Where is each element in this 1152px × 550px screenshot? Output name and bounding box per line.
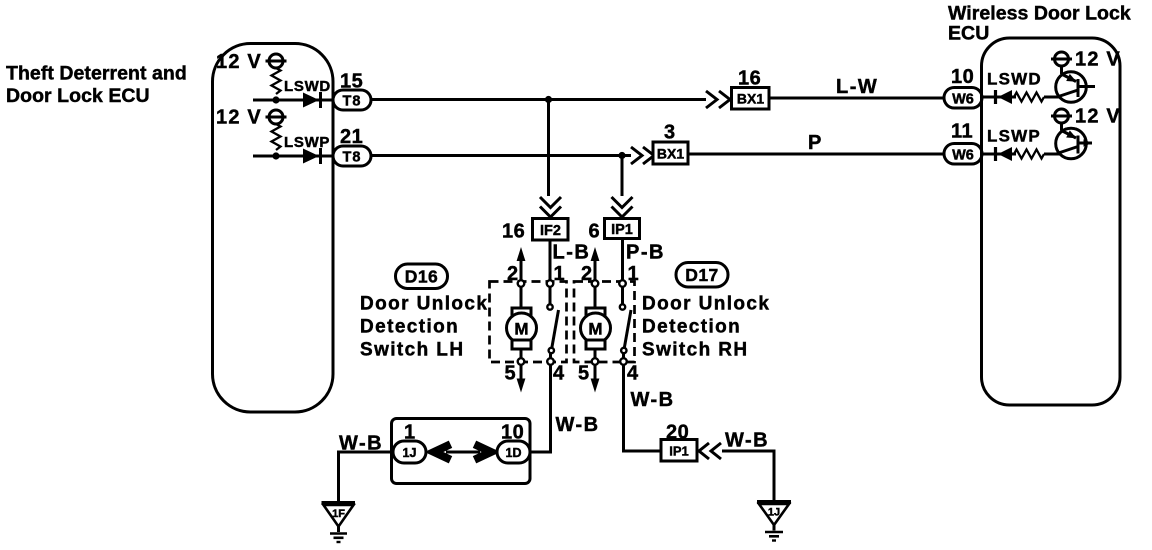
- diode LSWP (wireless ECU): [996, 147, 1013, 161]
- svg-text:12 V: 12 V: [216, 107, 262, 129]
- label: Wireless Door Lock ECU: [948, 3, 1131, 45]
- switch (D16): [547, 286, 558, 359]
- wire (IF2 to D16 pin 1): [549, 240, 552, 281]
- svg-text:ECU: ECU: [948, 23, 989, 45]
- svg-text:L-B: L-B: [553, 242, 591, 264]
- connector arrows out of IP1 (bottom): [699, 443, 721, 459]
- power source symbol 12V (LSWP): [266, 110, 287, 124]
- svg-text:4: 4: [627, 363, 639, 385]
- wire (L-W drop to IF2): [547, 100, 550, 197]
- diode (LSWP row): [303, 148, 321, 164]
- connector arrows into IP1: [612, 197, 633, 217]
- svg-text:11: 11: [951, 121, 973, 143]
- transistor Q1: [1056, 66, 1095, 102]
- resistor LSWD: [272, 68, 281, 94]
- svg-text:BX1: BX1: [737, 91, 764, 107]
- svg-text:5: 5: [505, 363, 517, 385]
- wire W-B (D17 pin 4 down to IP1): [624, 365, 662, 451]
- svg-text:1D: 1D: [506, 446, 522, 460]
- wire P (T8 pin21 to BX1): [371, 154, 631, 157]
- connector BX1 (P): [653, 142, 688, 164]
- connector T8 pin 21: [333, 146, 371, 166]
- D17 connector code label: [676, 263, 728, 288]
- svg-text:1F: 1F: [332, 508, 345, 520]
- dashed box: Door Unlock Detection Switch RH (D17): [574, 282, 635, 363]
- svg-text:1: 1: [554, 263, 566, 285]
- wire arrow up (D17 pin 2): [591, 247, 600, 280]
- svg-text:P: P: [808, 132, 823, 154]
- svg-text:IF2: IF2: [540, 223, 561, 239]
- Wireless Door Lock ECU box outline: [982, 38, 1121, 405]
- svg-text:1J: 1J: [403, 446, 417, 460]
- wire P (BX1 to W6): [688, 153, 944, 156]
- wire W-B (1J to ground IF): [339, 452, 394, 502]
- svg-text:12 V: 12 V: [216, 51, 262, 73]
- wire W-B (IP1 to ground 1J): [722, 451, 774, 500]
- wire (resistor to transistor Q2 base): [1044, 153, 1059, 156]
- svg-text:IP1: IP1: [669, 444, 689, 459]
- wire (P drop to IP1): [621, 156, 624, 197]
- junction node (LSWP row): [272, 152, 279, 159]
- connector IF2: [533, 219, 569, 241]
- label: Theft Deterrent and Door Lock ECU: [6, 63, 187, 108]
- svg-text:W-B: W-B: [556, 414, 600, 436]
- svg-text:LSWP: LSWP: [284, 134, 330, 151]
- svg-text:Door Lock ECU: Door Lock ECU: [6, 85, 150, 107]
- svg-text:M: M: [588, 320, 602, 339]
- svg-text:D17: D17: [685, 265, 719, 285]
- connector arrows into BX1 (L-W): [706, 91, 730, 108]
- resistor LSWP: [272, 124, 281, 150]
- svg-text:LSWP: LSWP: [987, 127, 1041, 146]
- connector IP1: [605, 219, 640, 239]
- connector T8 pin 15: [333, 90, 371, 110]
- resistor (LSWD row, wireless ECU): [1014, 93, 1044, 102]
- svg-text:12 V: 12 V: [1075, 106, 1121, 128]
- svg-text:Door Unlock: Door Unlock: [360, 294, 488, 315]
- svg-text:LSWD: LSWD: [987, 70, 1042, 89]
- junction node (P drop to IP1): [618, 152, 625, 159]
- wire (LSWD row inside ECU): [253, 99, 333, 102]
- resistor (LSWP row, wireless ECU): [1014, 150, 1044, 159]
- svg-text:12 V: 12 V: [1075, 49, 1121, 71]
- svg-text:T8: T8: [343, 149, 362, 165]
- svg-text:IP1: IP1: [611, 222, 633, 238]
- power source symbol 12V (Q2): [1051, 109, 1072, 123]
- transistor Q2: [1056, 123, 1092, 159]
- svg-text:L-W: L-W: [836, 76, 878, 98]
- dashed box: Door Unlock Detection Switch LH (D16): [490, 282, 567, 363]
- svg-text:T8: T8: [343, 93, 362, 109]
- wire L-W (BX1 to W6): [769, 97, 944, 100]
- motor M (D17): [581, 286, 611, 359]
- wire W-B (D16 pin 4 down to junction connector 1D): [531, 365, 551, 452]
- svg-text:W-B: W-B: [631, 389, 675, 411]
- wire (LSWP row inside ECU): [253, 155, 333, 158]
- svg-text:Detection: Detection: [360, 317, 459, 338]
- svg-text:D16: D16: [405, 267, 439, 287]
- pin 2 node (D17): [592, 280, 599, 287]
- svg-text:Wireless Door Lock: Wireless Door Lock: [948, 3, 1131, 25]
- svg-text:3: 3: [664, 122, 676, 144]
- svg-text:M: M: [514, 320, 528, 339]
- Theft Deterrent and Door Lock ECU box outline: [213, 44, 334, 413]
- svg-text:W-B: W-B: [725, 430, 769, 452]
- wire arrow up (D16 pin 2): [517, 247, 526, 280]
- svg-text:10: 10: [951, 66, 974, 88]
- svg-text:Theft Deterrent and: Theft Deterrent and: [6, 63, 187, 85]
- connector arrows into BX1 (P): [631, 147, 654, 164]
- svg-text:5: 5: [578, 363, 590, 385]
- svg-text:1: 1: [628, 263, 640, 285]
- wire (between junction arrows): [446, 451, 480, 454]
- pin 1 node (D16): [547, 280, 554, 287]
- pin 1 node (D17): [619, 280, 626, 287]
- wire (IP1 to D17 pin 1): [621, 239, 624, 282]
- svg-text:LSWD: LSWD: [284, 78, 331, 95]
- svg-text:P-B: P-B: [626, 242, 665, 264]
- svg-text:W6: W6: [952, 147, 974, 163]
- svg-text:1J: 1J: [768, 507, 780, 519]
- power source symbol 12V (LSWD): [266, 54, 287, 68]
- wire (W6-10 into wireless ECU): [982, 96, 1016, 99]
- connector W6 pin 11: [944, 144, 982, 165]
- junction node (LSWD row): [272, 96, 279, 103]
- svg-text:Switch RH: Switch RH: [642, 340, 749, 361]
- junction arrow left (inside junction block): [434, 444, 451, 459]
- svg-text:Door Unlock: Door Unlock: [642, 294, 770, 315]
- ground IF: [322, 501, 356, 542]
- svg-text:W6: W6: [952, 91, 974, 107]
- svg-text:Switch LH: Switch LH: [360, 340, 464, 361]
- junction node (L-W drop to IF2): [545, 96, 552, 103]
- connector arrows into IF2: [540, 197, 561, 217]
- label: Door Unlock Detection Switch LH: [360, 294, 488, 361]
- svg-text:Detection: Detection: [642, 317, 741, 338]
- label: Door Unlock Detection Switch RH: [642, 294, 770, 361]
- wire (resistor to transistor Q1 base): [1044, 96, 1059, 99]
- connector 1J: [393, 441, 426, 463]
- pin 2 node (D16): [518, 280, 525, 287]
- connector IP1 (bottom): [661, 440, 697, 462]
- motor M (D16): [507, 286, 537, 359]
- svg-text:16: 16: [502, 221, 525, 243]
- D16 connector code label: [396, 264, 448, 289]
- wire arrow down (D16 pin 5): [517, 365, 526, 393]
- svg-text:W-B: W-B: [339, 433, 383, 455]
- wire L-W (T8 pin15 to BX1): [371, 98, 706, 101]
- wire (W6-11 into wireless ECU): [982, 153, 1016, 156]
- switch (D17): [620, 286, 631, 359]
- pin 4 node (D17): [620, 358, 627, 365]
- diode LSWD (wireless ECU): [996, 90, 1013, 104]
- pin 4 node (D16): [547, 358, 554, 365]
- connector W6 pin 10: [944, 88, 982, 109]
- connector BX1 (L-W): [732, 88, 770, 110]
- power source symbol 12V (Q1): [1051, 52, 1072, 66]
- pin 5 node (D17): [592, 358, 599, 365]
- junction block box: [392, 419, 531, 484]
- junction arrow right (inside junction block): [475, 444, 492, 459]
- diode (LSWD row): [303, 92, 321, 108]
- connector 1D: [497, 441, 530, 463]
- svg-text:4: 4: [553, 363, 565, 385]
- svg-text:6: 6: [589, 221, 601, 243]
- pin 5 node (D16): [518, 358, 525, 365]
- wire arrow down (D17 pin 5): [591, 365, 600, 393]
- ground 1J: [757, 500, 791, 541]
- svg-text:BX1: BX1: [657, 146, 684, 162]
